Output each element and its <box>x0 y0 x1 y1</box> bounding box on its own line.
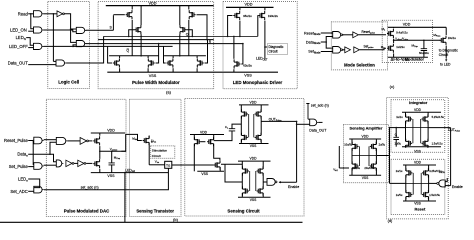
nmos M7 <box>167 58 173 67</box>
wire node V to M_pass gate <box>394 39 441 41</box>
svg-text:Diagnostic: Diagnostic <box>269 45 284 49</box>
wire Set_ADC <box>28 190 34 192</box>
svg-text:DataMode: DataMode <box>306 40 321 45</box>
AND gate B1 (Reset_Pulse) <box>34 137 42 144</box>
NAND gate C2 <box>333 47 341 54</box>
svg-text:ResetMode: ResetMode <box>304 31 321 36</box>
power rail VDD (reset) <box>403 164 436 166</box>
wire MP2 drain (LED_OUT) <box>264 21 266 59</box>
pmos right (reset) <box>422 168 428 177</box>
svg-text:95u/1u: 95u/1u <box>243 14 252 18</box>
power rail VDD (DAC) <box>91 132 125 134</box>
wire Reset branch down to B2 <box>32 141 35 165</box>
wire pmosR-nmosR (sensing amplifier) <box>375 148 377 164</box>
inverter T2a <box>66 160 72 166</box>
block box: Pulse Modulated DAC <box>46 99 126 216</box>
svg-text:VSS: VSS <box>362 176 369 180</box>
junction <box>393 40 395 42</box>
pmos M4 (PWM right inner) <box>180 25 186 34</box>
power rail VDD (PWM) <box>106 5 214 7</box>
wire M1 to VDD <box>393 27 395 28</box>
svg-text:VDD: VDD <box>250 157 258 161</box>
NAND gate C1 <box>333 32 341 39</box>
wire M8 gate <box>205 40 208 63</box>
power rail VSS (sensing amplifier) <box>349 174 381 176</box>
wire to G5 input <box>71 29 77 42</box>
wire pmosR-nmosR (output stage) <box>260 116 262 136</box>
wire G3 out long <box>73 45 173 47</box>
block box: Sensing Circuit <box>185 99 304 216</box>
junction <box>111 151 113 153</box>
wire S <box>86 29 114 31</box>
svg-text:Sensing Circuit: Sensing Circuit <box>227 208 260 213</box>
wire M5 source to VSS <box>119 68 121 72</box>
wire vdd-pmosR (reset) <box>428 165 430 171</box>
svg-text:Data_OUT: Data_OUT <box>309 128 327 132</box>
power rail VDD (left amp) <box>190 134 224 136</box>
junction <box>206 39 208 41</box>
nmos M6 <box>148 58 154 67</box>
wire G2 out to G4 <box>44 30 77 32</box>
wire M1 gate lead <box>113 14 124 16</box>
svg-text:LEDN: LEDN <box>16 35 26 41</box>
wire Ci bottom <box>395 140 397 147</box>
wire nmos source to VSS <box>99 169 101 173</box>
power rail VDD (output stage) <box>239 104 269 106</box>
wire T1 to pmos gate <box>88 140 92 142</box>
pmos left (integrator) <box>406 114 412 123</box>
wire pmosL-nmosL (sensing amplifier) <box>351 148 353 164</box>
svg-text:VDD: VDD <box>414 108 422 112</box>
wire M7 gate <box>164 46 166 63</box>
wire input to enable stage <box>225 164 242 182</box>
power rail VSS (enable stage) <box>238 196 271 198</box>
wire into TG <box>149 164 165 166</box>
junction <box>179 55 181 57</box>
wire Data_OUT in <box>28 64 56 66</box>
wire gate cross (enable stage) <box>250 171 256 191</box>
junction <box>264 46 266 48</box>
wire feedback down <box>52 14 54 62</box>
power rail VSS (output stage) <box>239 143 269 145</box>
wire B1 out <box>44 139 57 141</box>
pmos right (sensing amplifier) <box>370 142 376 151</box>
buffer B2b <box>354 47 360 53</box>
AND gate B5 <box>56 160 62 167</box>
wire Set_Pulse <box>28 166 34 168</box>
AND gate G1 (Read) <box>34 11 42 17</box>
svg-text:2u/5u: 2u/5u <box>379 143 386 147</box>
wire OUT_Pulse <box>261 120 296 122</box>
wire M6 source to VSS <box>147 68 149 72</box>
svg-text:VSS: VSS <box>107 174 115 178</box>
wire MP1 drain down <box>239 21 241 37</box>
block box: Sensing Amplifier <box>343 124 388 182</box>
nmos (left amp) <box>214 160 220 169</box>
wire left amp out right <box>221 163 242 165</box>
wire M3 to VDD <box>188 6 190 10</box>
wire V_sense <box>100 150 126 152</box>
wire vdd-pmosL (integrator) <box>405 112 407 117</box>
svg-text:20u/0.5u: 20u/0.5u <box>364 166 375 170</box>
AND gate G4 <box>76 27 84 33</box>
wire vdd-pmosR (left amp) <box>213 135 215 140</box>
svg-text:VDD: VDD <box>250 101 258 105</box>
AND gate D (Data_OUT) <box>310 119 317 126</box>
wire MP2 to VDD <box>264 7 266 10</box>
svg-text:63u/3u: 63u/3u <box>243 64 252 68</box>
junction <box>72 46 74 48</box>
svg-text:Enable: Enable <box>288 185 299 189</box>
AND gate G3 (LED_OFF) <box>34 43 42 49</box>
power rail VSS (integrator) <box>402 146 441 148</box>
junction <box>30 13 32 15</box>
pmos MP1 95u/1u <box>233 11 239 20</box>
nmos right (reset) <box>422 190 428 199</box>
block box: dI-to-V Modulator <box>382 20 432 62</box>
wire M6 gate <box>156 44 159 63</box>
junction <box>188 36 190 38</box>
wire G6 output up <box>66 36 104 63</box>
wire V_in2 stub <box>338 146 340 168</box>
wire MP1 gate <box>228 16 233 37</box>
wire nmosL-vss (sensing amplifier) <box>351 168 353 175</box>
wire pmosL to vss (left amp) <box>193 144 195 172</box>
AND gate B2 (Set_Pulse) <box>34 163 42 170</box>
buffer B1 <box>353 32 359 38</box>
block box: Integrator <box>391 100 445 153</box>
pmos right (output stage) <box>255 109 261 118</box>
wire nmosL-vss (enable stage) <box>241 193 243 197</box>
wire V_in2 <box>339 167 349 169</box>
AND gate G5 <box>76 41 84 47</box>
svg-text:to LED: to LED <box>440 63 451 67</box>
block box: Sensing Transistor <box>130 99 182 216</box>
pmos M2 1u/23u <box>387 44 393 53</box>
svg-text:Circuit: Circuit <box>269 50 278 54</box>
wire pmosL-nmosL (enable stage) <box>241 173 243 189</box>
wire G3 out to G5 <box>44 45 77 47</box>
wire M1 drain to node <box>393 39 395 41</box>
svg-text:TG: TG <box>166 163 171 167</box>
svg-text:4u/1u: 4u/1u <box>439 171 446 174</box>
wire reset input <box>390 182 406 184</box>
pmos left (sensing amplifier) <box>352 142 358 151</box>
svg-text:VDD: VDD <box>414 161 422 165</box>
wire M6 drain <box>147 56 149 58</box>
svg-text:VDD: VDD <box>200 130 208 134</box>
wire B2 out <box>44 164 57 166</box>
junction <box>140 55 142 57</box>
nmos left (integrator) <box>406 139 412 148</box>
block box: LED Monophasic Driver <box>223 2 297 89</box>
wire MN1 gate <box>241 44 243 64</box>
nmos left (reset) <box>406 190 412 199</box>
svg-text:(c): (c) <box>390 84 395 89</box>
power rail VDD (dI-to-V) <box>388 26 446 28</box>
junction <box>389 127 391 129</box>
wire nmos drain up <box>99 151 101 159</box>
svg-text:9.4u/0.5u: 9.4u/0.5u <box>396 30 408 34</box>
capacitor Ci <box>393 137 399 139</box>
wire Data_n down <box>50 154 56 162</box>
wire B4 to buffer <box>67 140 80 142</box>
svg-text:VSS: VSS <box>244 74 252 78</box>
pmos left (output stage) <box>242 109 248 118</box>
svg-text:Data_OUT: Data_OUT <box>8 61 28 66</box>
wire pmosR-nmosR (integrator) <box>427 121 429 141</box>
wire vdd-pmosL (sensing amplifier) <box>351 139 353 145</box>
wire reset nand out <box>429 182 437 184</box>
junction <box>49 153 51 155</box>
junction <box>99 151 101 153</box>
wire reset nand in1 <box>445 178 447 182</box>
svg-text:1u/10u: 1u/10u <box>352 166 360 170</box>
junction <box>239 36 241 38</box>
junction <box>296 124 298 126</box>
junction <box>124 172 126 174</box>
junction <box>70 28 72 30</box>
power rail VSS (left amp) <box>197 170 224 172</box>
pmos left (reset) <box>406 168 412 177</box>
nmos left (enable stage) <box>243 186 249 195</box>
svg-text:Pulse Modulated DAC: Pulse Modulated DAC <box>64 208 110 213</box>
nmos right (output stage) <box>255 133 261 142</box>
wire set_adc (n) input tick <box>306 104 309 120</box>
svg-text:Sensing Transistor: Sensing Transistor <box>136 208 174 213</box>
wire Set_pulse <box>360 48 386 50</box>
inverter I1 <box>57 11 63 17</box>
power rail VSS (DAC) continuing as LED_out wire <box>91 172 169 174</box>
capacitor M_Cap <box>421 49 427 51</box>
AND gate G2 (LED_ON) <box>34 27 42 33</box>
wire G1 out to inverter <box>44 13 58 15</box>
svg-text:Circuit: Circuit <box>152 154 161 158</box>
wire LED_OFF <box>28 47 33 49</box>
svg-text:VDD: VDD <box>244 3 252 7</box>
wire Data_Mode up <box>321 37 333 43</box>
wire pmos to VDD <box>99 133 101 136</box>
wire pmos drain to V_sense <box>99 146 101 151</box>
pmos left (enable stage) <box>243 166 249 175</box>
wire into G6 <box>53 60 56 62</box>
pmos M3 (PWM upper-right) <box>189 10 195 19</box>
wire cap top lead <box>423 40 425 48</box>
nmos DAC <box>93 159 99 168</box>
wire vdd-pmosR (output stage) <box>260 105 262 112</box>
power rail VDD (integrator) <box>402 111 441 113</box>
AND gate B4 <box>56 137 66 144</box>
svg-text:Reset_Pulse: Reset_Pulse <box>4 138 28 143</box>
wire NMOS common bar left <box>109 55 159 57</box>
wire M3 drain down <box>188 20 190 56</box>
wire pmosL-nmosL (integrator) <box>405 121 407 141</box>
pmos M_Pass 10u/1u <box>440 36 446 45</box>
wire Read branch to G2 <box>31 14 34 29</box>
svg-text:Pulse Width Modulator: Pulse Width Modulator <box>132 80 180 85</box>
svg-text:Stimulation: Stimulation <box>152 148 168 152</box>
block box: Diagnostic Circuit <box>268 44 288 55</box>
nmos MN1 63u/3u <box>234 59 240 68</box>
inverter T1 <box>80 138 87 145</box>
wire pmosR-nmosR (reset) <box>428 175 430 193</box>
svg-text:Reset: Reset <box>414 206 426 211</box>
svg-text:Read: Read <box>18 11 29 16</box>
wire vdd-pmosL (left amp) <box>193 135 195 140</box>
block box: Mode Selection <box>331 22 387 70</box>
wire S vertical <box>112 15 114 30</box>
wire vdd-pmosR (enable stage) <box>262 161 264 169</box>
wire C1 to buffer <box>342 34 353 36</box>
nmos M8 <box>197 58 203 67</box>
wire enable joint <box>279 181 297 183</box>
wire M4 gate to Q <box>186 30 192 37</box>
nmos M5 <box>113 58 119 67</box>
svg-text:VSS: VSS <box>201 172 208 176</box>
junction <box>53 13 55 15</box>
TG switch box <box>165 161 172 168</box>
svg-text:Mode Selection: Mode Selection <box>344 62 375 67</box>
wire pmosR-nmosR (enable stage) <box>262 173 264 189</box>
wire nmosR-vss (sensing amplifier) <box>375 168 377 175</box>
pmos DAC <box>93 136 99 145</box>
wire M_dis drain down <box>148 142 150 164</box>
wire to MN1 drain <box>233 36 235 58</box>
block box: Logic Cell <box>48 2 90 89</box>
wire NMOS common bar right <box>164 55 206 57</box>
wire LED_ON <box>28 30 33 32</box>
wire T2b to nmos gate <box>86 162 92 164</box>
block box: Pulse Width Modulator <box>98 2 214 89</box>
wire gate cross (sensing amplifier) <box>352 146 376 166</box>
junction <box>325 41 327 43</box>
wire M_Pass to VDD <box>445 27 447 35</box>
wire MP1 to VDD <box>239 7 241 10</box>
nmos right (sensing amplifier) <box>370 161 376 170</box>
wire M7 source to VSS <box>172 68 174 72</box>
nmos right (enable stage) <box>257 186 263 195</box>
svg-text:190u/2u: 190u/2u <box>268 14 279 18</box>
wire integrator out <box>428 127 451 129</box>
wire TG out to sensing circuit <box>172 164 211 166</box>
AND gate G6 (Data_OUT) <box>56 60 65 66</box>
svg-text:Datan: Datan <box>17 152 28 158</box>
wire Data_Mode down <box>326 42 333 48</box>
buffer B2a <box>345 47 351 53</box>
svg-text:60u/30u: 60u/30u <box>419 51 429 55</box>
wire M4 drain down <box>179 34 181 56</box>
wire Reset_Mode <box>321 32 333 34</box>
wire reset nand in2 (Enable) <box>445 185 450 187</box>
wire nmosR-vss (output stage) <box>260 139 262 143</box>
svg-text:1u/5u: 1u/5u <box>395 142 402 146</box>
arrow I_vis <box>151 139 153 143</box>
pmos M2 (PWM left inner) <box>135 25 141 34</box>
wire R <box>98 39 214 41</box>
wire cap lead down <box>111 165 113 173</box>
pmos right (enable stage) <box>257 166 263 175</box>
wire M2 drain down <box>140 34 142 56</box>
wire M4 source to VDD <box>179 6 181 26</box>
pmos M1 9.4u/0.5u <box>387 29 393 38</box>
wire M3 gate to R <box>197 15 208 40</box>
svg-text:10u/5u: 10u/5u <box>344 143 352 147</box>
svg-text:Enable: Enable <box>452 185 463 189</box>
svg-text:LED_OFF: LED_OFF <box>9 44 28 49</box>
power rail VSS (PWM) <box>107 71 213 73</box>
arrow to LED <box>445 58 447 61</box>
wire LED_n to B3 <box>28 179 40 188</box>
svg-text:VDD: VDD <box>107 129 115 133</box>
wire M1 to VDD <box>131 6 133 10</box>
capacitor M_cap (DAC) <box>109 163 115 165</box>
svg-text:Circuit: Circuit <box>439 53 448 57</box>
svg-text:Set_Pulse: Set_Pulse <box>9 164 29 169</box>
svg-text:(b): (b) <box>173 217 179 222</box>
wire M7 drain <box>172 56 174 58</box>
wire vdd-pmosL (output stage) <box>240 105 242 112</box>
wire C2 out <box>342 49 345 51</box>
svg-text:(d): (d) <box>388 219 393 223</box>
wire I1 out to G4 <box>65 14 77 29</box>
svg-text:1u/23u: 1u/23u <box>396 45 405 49</box>
wire cap bottom lead <box>423 51 425 58</box>
wire M_dis top <box>148 136 150 139</box>
NAND gate reset (left-facing) <box>439 180 445 187</box>
wire T2a-T2b <box>74 162 78 164</box>
wire Cs bottom coupling <box>214 131 232 141</box>
pmos M1 (PWM upper-left) <box>126 10 132 19</box>
wire Data_OUT out <box>318 121 322 123</box>
wire set_adc[n] <box>44 168 168 189</box>
wire pmosL-nmosL (reset) <box>405 175 407 193</box>
svg-text:VSS: VSS <box>414 202 421 206</box>
wire Reset_pulse <box>359 34 386 36</box>
svg-text:(a): (a) <box>166 89 172 94</box>
arrow enable <box>279 181 281 183</box>
power rail VDD (LED driver) <box>226 6 274 8</box>
wire pmos gates cross (left amp) <box>201 141 206 143</box>
wire nmos source to vss (left amp) <box>219 167 221 171</box>
wire LED_N to G3 <box>26 38 33 46</box>
pmos right (integrator) <box>422 114 428 123</box>
wire vdd-pmosL (reset) <box>405 165 407 171</box>
block box: section d outer <box>387 98 449 219</box>
wire Set_Mode <box>321 51 333 53</box>
block box: Stimulation Circuit <box>151 146 175 158</box>
wire gate cross (integrator) <box>406 119 429 143</box>
svg-text:LED_ON: LED_ON <box>10 28 27 33</box>
junction <box>296 121 298 123</box>
junction <box>131 36 133 38</box>
svg-text:VSS: VSS <box>414 150 421 154</box>
wire MP2 gate <box>257 16 259 37</box>
wire amp/integrator routing <box>389 128 391 184</box>
block box: Reset <box>391 159 445 214</box>
wire TG to nmos gate <box>211 164 214 166</box>
wire V_sense to M_dis gate <box>121 134 141 151</box>
wire vdd-pmosR (sensing amplifier) <box>375 139 377 145</box>
svg-text:set_adc (n): set_adc (n) <box>81 185 99 189</box>
wire OUT to gate D <box>297 123 310 125</box>
svg-text:VDD: VDD <box>148 1 156 5</box>
svg-text:VSS: VSS <box>250 144 257 148</box>
wire nmosR-vss (integrator) <box>427 145 429 147</box>
svg-text:1.5u/0.5u: 1.5u/0.5u <box>432 142 443 146</box>
wire M_Pass drain to LED <box>445 46 447 59</box>
wire MN1 source to VSS <box>233 69 235 72</box>
svg-text:VDD: VDD <box>362 135 370 139</box>
